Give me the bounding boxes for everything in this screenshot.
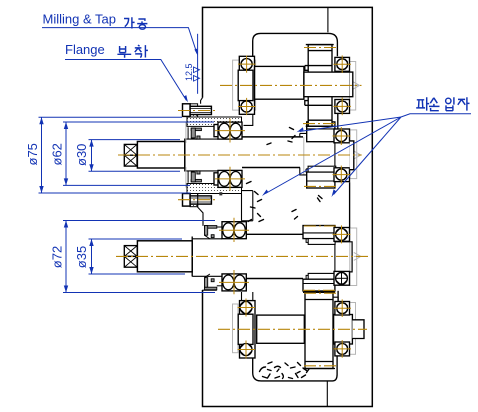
housing bore wall between top-right and upper-left bearings xyxy=(337,113,339,129)
centerline top-right shaft xyxy=(220,84,362,86)
flange plate bolt strip top xyxy=(190,104,198,117)
ghost arrow centerline upper-left shaft xyxy=(354,151,361,159)
left bearing block top-right shaft xyxy=(238,56,254,114)
bearing upper-left shaft bottom race crosshair xyxy=(215,167,245,191)
left bearing block bottom-right shaft xyxy=(238,301,255,358)
crosshair right bearing bottom upper-left shaft xyxy=(333,225,351,243)
pinion web step xyxy=(306,169,308,172)
crosshair right bearing top lower-left shaft xyxy=(333,299,351,317)
seal gland lower top: lip xyxy=(211,235,214,238)
seal gland lower bottom: bar xyxy=(205,287,217,290)
gear rim top-right shaft xyxy=(305,45,334,127)
shaft step at pinion upper-left xyxy=(300,133,307,175)
flange plate top band (dotted hatch) xyxy=(187,117,242,126)
flange bolt lower (head) xyxy=(183,194,191,207)
seal gland upper bottom: bar xyxy=(191,179,201,182)
dim ø75 xyxy=(39,117,191,193)
crosshairs left bearing top-right shaft xyxy=(238,56,256,116)
pitch line top mesh xyxy=(303,123,338,125)
seal gland upper top: chamfer xyxy=(191,138,196,139)
seal journal upper-left shaft xyxy=(185,139,218,171)
surface finish note 12.5 xyxy=(184,34,200,94)
gear rim bottom-right shaft xyxy=(303,292,335,368)
pinion web ring lower xyxy=(308,166,336,172)
svg-text:ø72: ø72 xyxy=(50,246,65,268)
ghost rect right bearing top-right shaft xyxy=(349,62,355,111)
ghost arrow centerline lower-left shaft xyxy=(354,252,361,260)
ghost arrow centerline top-right shaft xyxy=(353,81,360,89)
ghost rect left bearing top-right shaft xyxy=(233,60,256,110)
housing cavity bottom floor xyxy=(253,356,337,381)
dim ø35 xyxy=(89,239,186,274)
note broken particles hangul ieung circle of 입 xyxy=(446,98,451,103)
housing web below top-left bearing xyxy=(244,114,253,125)
crosshair left bearing balls top-right shaft xyxy=(333,55,351,73)
seal journal lower-left shaft xyxy=(192,239,222,276)
flange bolt lower (shank) xyxy=(190,196,211,204)
gear lower-left web ring lower xyxy=(308,273,335,279)
seal gland lower top: bar xyxy=(205,226,217,229)
gear lower-left web ring upper xyxy=(308,239,335,245)
housing sump partition xyxy=(326,381,328,407)
seal gland upper top: lip xyxy=(197,136,200,139)
knurled coupling upper-left shaft xyxy=(124,144,137,166)
gear lower-left web step upper xyxy=(306,239,308,243)
leader Milling & Tap xyxy=(42,28,198,56)
right bearing top bottom-right shaft xyxy=(335,302,350,316)
seal gland upper bottom: lip xyxy=(197,171,200,174)
pinion rim bottom root line xyxy=(307,180,335,182)
svg-text:Flange: Flange xyxy=(65,42,105,57)
flange bolt upper (shank) xyxy=(190,106,211,114)
shaft end ø30 upper-left xyxy=(137,142,184,169)
ghost rect right bearing upper-left shaft xyxy=(350,130,357,179)
flange bolt upper (head) xyxy=(183,104,191,117)
gear lower-left rim bottom root line xyxy=(303,283,335,285)
dim ø62 xyxy=(63,122,214,185)
centerline lower-left shaft xyxy=(116,255,368,257)
bearing cage notch overlays xyxy=(241,59,348,355)
shaft body bottom-right shaft xyxy=(257,315,305,343)
gear lower-left rim top root line xyxy=(303,232,335,234)
note broken particles hangul 파손 입자 (drawn strokes) xyxy=(416,97,469,111)
shaft end ø35 lower-left xyxy=(137,241,192,272)
housing step above bottom-right bearing xyxy=(332,297,339,300)
seal gland upper top: bar xyxy=(191,128,201,131)
ghost rect right bearing lower-left shaft xyxy=(350,228,357,286)
flange plate bottom band (dotted hatch) xyxy=(187,184,242,194)
crosshair right bearing top top-right shaft xyxy=(333,98,351,116)
crosshair right bearing bottom top-right shaft xyxy=(219,218,249,242)
centerline bottom-right shaft xyxy=(218,328,367,330)
pinion rim top root line xyxy=(307,128,335,130)
seal gland upper bottom: chamfer xyxy=(191,171,196,172)
gland lower bottom closing line xyxy=(202,289,217,291)
gear lower-left web step lower xyxy=(306,275,308,279)
note Milling & Tap hangul 가공 (drawn strokes) xyxy=(124,17,147,29)
shaft shoulder upper-left xyxy=(184,139,186,172)
ghost rect right bearing bottom-right shaft xyxy=(350,303,356,355)
shaft mid-section lower-left xyxy=(246,234,303,278)
pitch line bottom mesh lower xyxy=(304,292,336,294)
bearing upper-left shaft right bottom xyxy=(334,168,350,182)
seal gland lower top: arm xyxy=(205,226,208,236)
ghost arrow centerline bottom-right shaft xyxy=(354,325,361,333)
bearing upper-left shaft bottom race xyxy=(214,170,242,187)
gear hub body top-right shaft xyxy=(255,66,304,99)
seal gland lower top: link to bearing xyxy=(217,226,222,228)
leader broken particles xyxy=(262,114,471,197)
ghost rect left bearing bottom-right shaft xyxy=(233,304,239,353)
debris cluster middle xyxy=(247,182,252,184)
retainer verticals below lower-left bearing xyxy=(242,292,253,301)
seal spacer square upper gland xyxy=(219,192,222,195)
dim ø72 xyxy=(63,221,215,293)
svg-text:ø35: ø35 xyxy=(74,246,89,268)
shaft right section bottom-right shaft xyxy=(334,315,353,345)
flange plate bolt strip bottom xyxy=(190,194,198,207)
knurled coupling lower-left shaft xyxy=(124,246,137,268)
svg-text:12.5: 12.5 xyxy=(184,63,194,81)
seal gland lower bottom: arm xyxy=(205,278,208,288)
svg-text:Milling & Tap: Milling & Tap xyxy=(43,12,116,27)
retainer block right edge upper-left assembly xyxy=(242,191,253,221)
top gear bottom edge re-stroke (mesh zone) xyxy=(306,125,334,127)
housing cavity top arch xyxy=(253,33,338,57)
pitch line lower gear top xyxy=(304,225,337,227)
shaft body right top-right shaft xyxy=(304,72,350,97)
crosshair xyxy=(333,166,351,184)
dim ø30 xyxy=(89,140,181,172)
ghost line at upper pinion left xyxy=(303,137,305,175)
housing bore wall between upper-left and lower-left bearings xyxy=(349,182,351,227)
right bearing bottom top-right shaft xyxy=(335,100,350,114)
bearing lower-left shaft bottom race xyxy=(222,274,246,291)
pinion upper-left shaft rim top band xyxy=(307,122,335,142)
gear lower-left shaft rim top band xyxy=(303,226,335,239)
shaft shoulder lower-left xyxy=(191,237,193,277)
pitch line top gear upper xyxy=(304,47,336,49)
bearing upper-left shaft top race xyxy=(214,122,242,139)
gear lower-left face edge xyxy=(334,244,336,273)
svg-text:ø75: ø75 xyxy=(25,143,40,165)
bearing upper-left shaft right top xyxy=(334,129,350,143)
flange plate inner verticals xyxy=(187,127,189,182)
crosshairs left bearing bottom-right shaft xyxy=(238,299,256,359)
gear lower-left rim bottom band xyxy=(303,279,335,291)
bearing lower-left shaft right bottom xyxy=(334,271,350,285)
shaft mid-section upper-left xyxy=(242,137,303,168)
svg-text:ø62: ø62 xyxy=(50,143,65,165)
bearing lower-left shaft top race xyxy=(222,222,246,239)
seal gland lower bottom: lip xyxy=(211,279,214,282)
right bearing top top-right shaft xyxy=(335,57,350,71)
seal gland lower top: chamfer xyxy=(205,235,210,239)
pitch line bottom gear lower xyxy=(304,365,337,367)
note Flange hangul 부착 (drawn strokes) xyxy=(117,45,147,58)
centerline upper-left shaft xyxy=(118,154,362,156)
seal gland upper top: arm xyxy=(191,128,195,138)
housing outer wall xyxy=(203,7,373,406)
seal gland lower bottom: chamfer xyxy=(205,274,210,278)
housing bore wall between lower-left and bottom-right bearings xyxy=(337,291,339,302)
shaft right end cap top-right shaft xyxy=(350,72,353,97)
crosshair right bearing bottom lower-left shaft (black cross) xyxy=(336,272,348,284)
debris pile bottom xyxy=(260,367,266,372)
svg-text:ø30: ø30 xyxy=(74,144,89,166)
crosshair right bearing bottom lower-left shaft (black) xyxy=(333,340,351,358)
right bearing bottom bottom-right shaft xyxy=(335,342,350,356)
shaft right end cap upper-left xyxy=(350,141,354,170)
bearing lower-left shaft right top xyxy=(334,228,350,242)
pinion rim bottom band xyxy=(307,172,335,188)
seal gland upper bottom: arm xyxy=(191,172,195,182)
leader Flange xyxy=(65,60,188,103)
gland housing outline lower shaft xyxy=(198,194,203,226)
bearing upper-left shaft top race crosshair xyxy=(215,119,245,143)
housing wall jog at flange xyxy=(201,98,203,104)
shaft body right section lower-left xyxy=(335,242,352,272)
ghost shoulder lines upper shaft xyxy=(185,123,187,188)
seal gland lower bottom: link to bearing xyxy=(217,285,222,287)
pitch line upper pinion bottom xyxy=(304,185,338,187)
shaft right stub bottom-right shaft xyxy=(352,320,364,339)
housing rib top right xyxy=(327,7,329,32)
pitch line bottom mesh upper xyxy=(303,289,337,291)
crosshair xyxy=(333,127,351,145)
pinion face edge right xyxy=(334,142,336,167)
centerline upper flange bolt xyxy=(178,110,216,112)
centerline lower flange bolt xyxy=(178,199,216,201)
crosshair right bearing top upper-left shaft xyxy=(219,270,249,294)
